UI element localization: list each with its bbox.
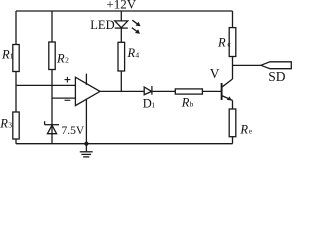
svg-text:R: R <box>56 51 65 65</box>
svg-text:b: b <box>190 100 194 109</box>
svg-text:R: R <box>239 122 248 136</box>
svg-text:7.5V: 7.5V <box>62 125 85 137</box>
svg-text:1: 1 <box>151 101 155 110</box>
svg-text:3: 3 <box>8 121 12 130</box>
svg-text:4: 4 <box>135 50 139 59</box>
svg-text:R: R <box>1 47 10 61</box>
svg-text:1: 1 <box>10 52 14 61</box>
svg-text:2: 2 <box>65 56 69 65</box>
svg-text:R: R <box>0 116 8 130</box>
svg-text:+12V: +12V <box>106 0 136 11</box>
svg-text:R: R <box>181 96 190 110</box>
svg-text:R: R <box>127 46 136 60</box>
svg-text:LED: LED <box>90 18 114 32</box>
svg-text:R: R <box>217 35 226 49</box>
svg-text:SD: SD <box>268 69 286 84</box>
svg-text:V: V <box>210 66 220 81</box>
